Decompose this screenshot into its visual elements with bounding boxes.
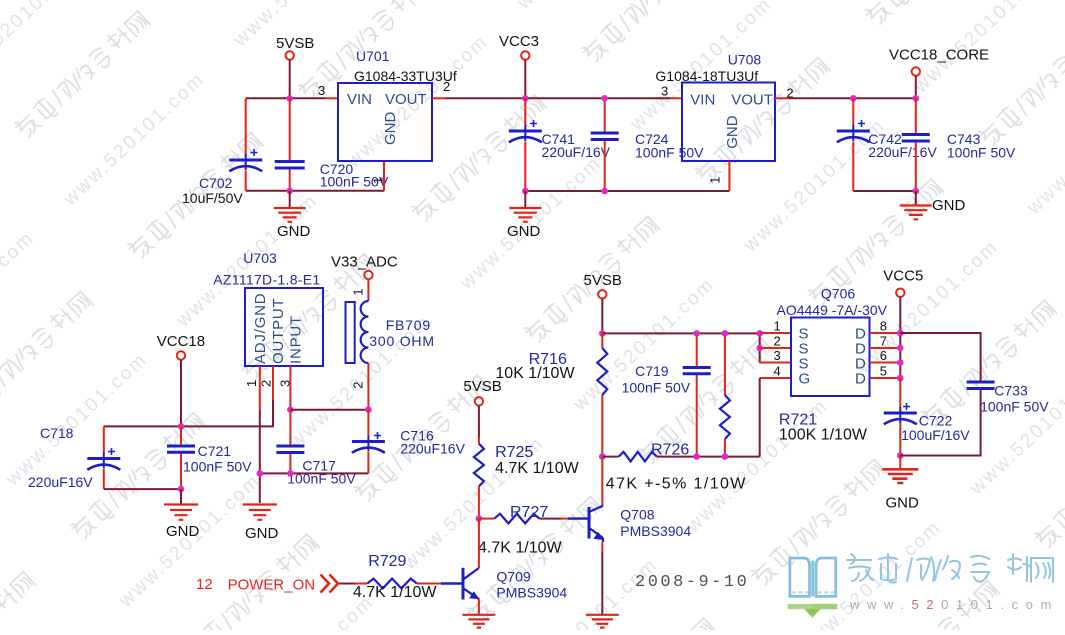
junction R721 bottom	[722, 453, 729, 460]
port POWER_ON chevron	[321, 575, 339, 593]
wire VCC18_CORE vertical	[915, 76, 917, 99]
wire R716 top lead	[601, 333, 603, 348]
label Q708	[620, 507, 691, 540]
ground symbol below C720	[289, 191, 291, 208]
capacitor C719	[683, 368, 711, 374]
resistor R727	[494, 514, 539, 524]
svg-text:GND: GND	[166, 523, 200, 540]
svg-text:4.7K 1/10W: 4.7K 1/10W	[478, 540, 563, 557]
svg-text:100nF 50V: 100nF 50V	[980, 399, 1049, 415]
wire 5VSB down to rail	[601, 299, 603, 334]
svg-text:www.520101.com: www.520101.com	[849, 597, 1059, 612]
svg-text:U703: U703	[243, 250, 277, 266]
wire C722 top lead	[899, 378, 901, 408]
svg-text:C718: C718	[40, 425, 74, 441]
wire C719 leads	[696, 333, 698, 456]
wire VCC18 rail	[104, 400, 273, 426]
node 5VSB second (power terminal)	[463, 378, 501, 405]
svg-text:G1084-33TU3Uf: G1084-33TU3Uf	[354, 68, 457, 84]
wire node down to Q709 collector	[478, 519, 480, 568]
resistor R726	[619, 452, 657, 462]
label R721 value	[779, 412, 868, 444]
wire C702 branch	[245, 98, 247, 191]
svg-text:AZ1117D-1.8-E1: AZ1117D-1.8-E1	[213, 272, 320, 288]
junction VCC18 node	[178, 423, 185, 430]
wire VCC5 vertical	[899, 297, 901, 378]
wire port to R729	[339, 583, 355, 585]
ground symbol below VCC3	[524, 191, 526, 208]
svg-text:G1084-18TU3Uf: G1084-18TU3Uf	[655, 68, 758, 84]
svg-text:1: 1	[244, 380, 259, 387]
label C741 value	[542, 131, 611, 160]
svg-text:4: 4	[774, 364, 781, 379]
svg-text:100nF 50V: 100nF 50V	[183, 459, 252, 475]
svg-text:PMBS3904: PMBS3904	[620, 523, 691, 539]
capacitor C718	[87, 448, 120, 470]
svg-text:3: 3	[318, 83, 325, 98]
label C718 value	[28, 425, 93, 490]
svg-text:10uF/50V: 10uF/50V	[182, 190, 243, 206]
svg-text:VIN: VIN	[347, 91, 372, 108]
logo book icon	[790, 558, 836, 596]
junction C742 top	[850, 95, 857, 102]
label R716 value	[495, 351, 575, 382]
wire R729 to Q709 base	[417, 583, 441, 585]
node VCC18 (power terminal)	[157, 333, 205, 360]
svg-text:AO4449 -7A/-30V: AO4449 -7A/-30V	[777, 302, 888, 318]
inductor FB709 coil	[361, 301, 369, 363]
svg-text:2: 2	[351, 381, 366, 388]
logo chinese title (drawn strokes)	[847, 554, 1053, 583]
wire ground rail C717-C716	[260, 472, 369, 474]
wire U708 VOUT to VCC18_CORE	[789, 97, 916, 99]
wire VOUT bus to U708	[446, 97, 670, 99]
svg-text:100nF 50V: 100nF 50V	[622, 380, 691, 396]
wire C741 leads	[524, 98, 526, 191]
junction R716/R726/Q708	[599, 453, 606, 460]
wire C733 branch top	[900, 333, 980, 381]
svg-text:1: 1	[774, 319, 781, 334]
junction C743 bottom	[913, 188, 920, 195]
junction C717 bottom	[287, 470, 294, 477]
svg-text:GND: GND	[277, 223, 311, 240]
ground symbol below C722	[882, 469, 918, 483]
wire pin3 stub U708	[670, 97, 682, 99]
wire R721 top lead	[724, 333, 726, 395]
inductor FB709 core bar	[346, 302, 355, 363]
resistor R721	[720, 395, 730, 439]
label C702 value	[182, 175, 243, 206]
svg-text:47K +-5% 1/10W: 47K +-5% 1/10W	[606, 476, 747, 493]
wire pin2 stub U701	[432, 97, 446, 99]
wire ground rail C718-C721	[104, 488, 181, 490]
wire U703 pin1 to ground	[259, 366, 261, 410]
wire C743 leads	[915, 98, 917, 191]
wire U701 GND pin down	[383, 161, 385, 191]
svg-text:100K 1/10W: 100K 1/10W	[779, 427, 868, 444]
junction C721 bottom	[178, 486, 185, 493]
label C720 value	[320, 161, 389, 190]
svg-text:VCC18: VCC18	[157, 333, 205, 350]
svg-text:100nF 50V: 100nF 50V	[947, 145, 1016, 161]
label R725 value	[495, 444, 579, 477]
label C722 value	[901, 413, 970, 444]
junction C724 top	[601, 95, 608, 102]
svg-text:ADJ/GND: ADJ/GND	[252, 293, 269, 364]
wire ground rail top-right	[853, 190, 916, 192]
svg-text:FB709: FB709	[386, 317, 431, 333]
svg-text:VCC5: VCC5	[883, 268, 923, 285]
junction Q706 pin1	[756, 330, 763, 337]
junction drain pins	[897, 330, 904, 382]
svg-text:5: 5	[880, 364, 887, 379]
svg-text:220uF16V: 220uF16V	[28, 474, 93, 490]
ground symbol below Q708	[586, 615, 619, 628]
resistor R729	[367, 579, 417, 589]
transistor Q709 PMBS3904	[441, 568, 480, 600]
svg-text:220uF/16V: 220uF/16V	[542, 144, 611, 160]
svg-text:INPUT: INPUT	[288, 315, 305, 364]
svg-text:7: 7	[880, 334, 887, 349]
ground symbol below U703 pin1	[243, 505, 277, 520]
junction C733 return	[897, 452, 904, 459]
label C719 value	[622, 363, 691, 396]
resistor R716	[597, 348, 607, 395]
wire Q709 emitter to ground	[478, 598, 480, 615]
svg-text:PMBS3904: PMBS3904	[496, 585, 567, 601]
svg-text:2008-9-10: 2008-9-10	[635, 573, 749, 592]
ground symbol below C721	[164, 505, 198, 520]
junction VCC18_CORE node	[913, 95, 920, 102]
wire C733 branch bottom	[900, 390, 980, 456]
transistor Q706 body	[791, 318, 870, 397]
svg-text:GND: GND	[724, 115, 741, 149]
wire Q706 pin stubs left	[760, 333, 791, 378]
logo book base	[788, 604, 838, 618]
svg-text:R725: R725	[495, 444, 533, 461]
wire 5VSB to R725	[478, 406, 480, 438]
op-amp U708 regulator body	[682, 83, 775, 162]
svg-text:GND: GND	[932, 197, 966, 214]
wire to ground	[899, 456, 901, 470]
node VCC3 (power terminal)	[499, 33, 539, 60]
wire node to R727	[479, 518, 494, 520]
svg-text:100nF 50V: 100nF 50V	[635, 145, 704, 161]
ground symbol below Q709	[462, 615, 495, 628]
junction C724 bottom	[601, 188, 608, 195]
wire coil to node	[367, 363, 369, 410]
svg-text:Q706: Q706	[821, 286, 855, 302]
wire source bus to Q706 pins 1-3	[759, 333, 761, 363]
wire C722 bottom lead	[899, 423, 901, 456]
wire source rail to Q706	[602, 332, 759, 334]
svg-text:G: G	[799, 371, 811, 388]
svg-text:VOUT: VOUT	[731, 92, 773, 109]
junction C719 top	[693, 330, 700, 337]
svg-text:1: 1	[708, 176, 723, 183]
wire R727 to Q708 base	[539, 518, 561, 520]
node 5VSB (power terminal)	[276, 35, 314, 60]
node V33_ADC (terminal)	[331, 254, 398, 280]
svg-text:Q708: Q708	[620, 507, 654, 523]
wire C742 leads	[852, 98, 854, 191]
junction R725/R727/Q709	[476, 515, 483, 522]
svg-text:1: 1	[371, 177, 386, 184]
label Q709	[496, 569, 567, 601]
capacitor C741	[509, 120, 542, 142]
resistor R725	[474, 444, 484, 487]
svg-text:U701: U701	[356, 48, 390, 64]
svg-text:3: 3	[661, 84, 668, 99]
svg-text:4.7K 1/10W: 4.7K 1/10W	[495, 460, 579, 477]
wire Q708 collector	[601, 457, 603, 506]
wire pin2 stub U708	[775, 97, 789, 99]
svg-text:3: 3	[774, 348, 781, 363]
svg-text:2: 2	[774, 334, 781, 349]
label C743 value	[947, 131, 1016, 161]
wire U703 pin3 stub	[289, 366, 291, 410]
svg-text:VCC18_CORE: VCC18_CORE	[889, 47, 989, 64]
svg-text:C733: C733	[994, 383, 1028, 399]
junction Q706 pin2	[756, 345, 763, 352]
svg-text:Q709: Q709	[496, 569, 530, 585]
wire Q708 emitter to ground	[601, 542, 603, 552]
svg-text:12: 12	[196, 576, 213, 593]
svg-text:GND: GND	[886, 495, 920, 512]
wire C724 leads	[604, 98, 606, 191]
svg-text:5VSB: 5VSB	[584, 272, 622, 289]
svg-text:R726: R726	[651, 442, 689, 459]
svg-text:100uF/16V: 100uF/16V	[901, 427, 970, 443]
wire R716 bottom lead	[601, 395, 603, 457]
svg-text:VCC3: VCC3	[499, 33, 539, 50]
svg-text:GND: GND	[245, 525, 279, 542]
svg-text:V33_ADC: V33_ADC	[331, 254, 398, 271]
svg-text:POWER_ON: POWER_ON	[228, 577, 316, 594]
svg-text:4.7K 1/10W: 4.7K 1/10W	[353, 584, 438, 601]
svg-text:VOUT: VOUT	[385, 91, 427, 108]
capacitor C717	[276, 446, 304, 453]
svg-text:6: 6	[880, 348, 887, 363]
svg-text:OUTPUT: OUTPUT	[270, 298, 287, 364]
wire R721 bottom lead	[724, 439, 726, 457]
capacitor C743	[902, 135, 930, 142]
capacitor C733	[967, 382, 995, 389]
wire C718 leads	[103, 426, 105, 489]
junction FB709 bottom node	[365, 406, 372, 413]
capacitor C742	[837, 120, 870, 142]
wire R725 to node	[478, 486, 480, 518]
ground symbol VCC18_CORE rail	[915, 191, 917, 205]
label C724 value	[635, 131, 704, 161]
svg-text:300 OHM: 300 OHM	[369, 333, 435, 349]
label FB709 value	[369, 317, 435, 349]
capacitor C724	[591, 133, 619, 140]
label 12 POWER_ON	[196, 576, 315, 594]
svg-text:R729: R729	[368, 553, 406, 570]
wire C721 leads	[180, 426, 182, 489]
junction 5VSB node	[286, 95, 293, 102]
wire C717 leads	[289, 410, 291, 474]
node VCC18_CORE (power terminal)	[889, 47, 989, 76]
label C733 value	[980, 383, 1049, 415]
junction R721 top	[722, 330, 729, 337]
wire Q706 gate down	[759, 378, 761, 457]
svg-text:220uF16V: 220uF16V	[400, 441, 465, 457]
node VCC5 (power terminal)	[883, 268, 923, 297]
junction rail at pin1	[257, 470, 264, 477]
svg-text:C721: C721	[198, 443, 232, 459]
op-amp U703 regulator body	[245, 288, 323, 366]
junction C741 bottom	[522, 188, 529, 195]
wire Q706 pin stubs right	[870, 333, 901, 378]
wire VCC18 vertical	[180, 360, 182, 427]
wire gate rail	[602, 456, 759, 458]
junction C719 bottom	[693, 453, 700, 460]
wire ground rail top-mid	[525, 190, 729, 192]
svg-text:GND: GND	[507, 223, 541, 240]
wire 5VSB vertical	[289, 60, 291, 99]
label C716 value	[400, 428, 465, 457]
junction ground node	[286, 188, 293, 195]
svg-text:1: 1	[351, 288, 366, 295]
svg-text:8: 8	[880, 319, 887, 334]
capacitor C720	[275, 162, 305, 169]
label C721 value	[183, 443, 252, 475]
wire C716 leads	[367, 410, 369, 474]
svg-text:10K 1/10W: 10K 1/10W	[495, 365, 575, 382]
svg-text:C702: C702	[199, 175, 233, 191]
wire pin3 to FB709	[290, 409, 368, 411]
wire C721 node to ground	[180, 489, 182, 504]
wire C720 branch (5VSB vertical lower)	[289, 98, 291, 191]
svg-text:C719: C719	[635, 363, 669, 379]
svg-text:220uF/16V: 220uF/16V	[868, 144, 937, 160]
op-amp U701 regulator body	[338, 83, 432, 161]
wire 5VSB to U701 VIN	[246, 97, 326, 99]
node 5VSB third (power terminal)	[584, 272, 622, 298]
svg-text:5VSB: 5VSB	[276, 35, 314, 52]
junction 5VSB rail node	[599, 330, 606, 337]
transistor Q708 PMBS3904	[568, 506, 604, 542]
wire ground rail top-left	[246, 190, 384, 192]
label C742 value	[868, 131, 937, 160]
svg-text:VIN: VIN	[690, 92, 715, 109]
svg-text:2: 2	[443, 79, 450, 94]
label C717 value	[287, 458, 356, 487]
svg-text:D: D	[855, 371, 866, 388]
capacitor C716	[352, 432, 385, 453]
capacitor C722	[884, 403, 917, 424]
capacitor C702	[229, 149, 262, 171]
junction VCC3 node	[522, 95, 529, 102]
junction pin3 node	[287, 406, 294, 413]
capacitor C721	[167, 446, 195, 452]
wire U708 GND pin down	[728, 161, 730, 191]
wire U703 pin2 stub	[272, 366, 274, 400]
wire VCC3 vertical	[524, 60, 526, 99]
wire V33_ADC to coil	[367, 279, 369, 301]
svg-text:GND: GND	[382, 112, 399, 146]
wire pin3 stub U701	[326, 97, 338, 99]
svg-text:U708: U708	[728, 52, 762, 68]
